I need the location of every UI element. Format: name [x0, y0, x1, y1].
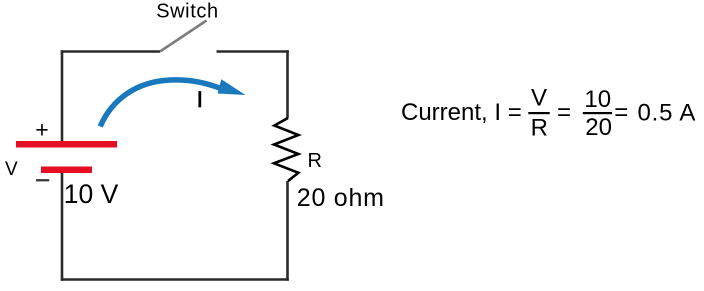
svg-text:=: = [557, 99, 571, 126]
svg-text:10: 10 [584, 86, 611, 113]
resistor R1 zigzag [274, 118, 298, 181]
svg-text:R: R [308, 150, 322, 172]
svg-text:Current, I =: Current, I = [401, 99, 522, 126]
svg-text:V: V [531, 85, 547, 112]
wire bottom horizontal [61, 278, 289, 281]
battery V1 positive plate [16, 141, 117, 148]
current arrow [100, 80, 221, 127]
svg-text:=: = [614, 99, 628, 126]
svg-text:20: 20 [585, 114, 612, 141]
svg-text:20 ohm: 20 ohm [297, 184, 385, 212]
wire left vertical lower (battery - terminal to bottom-left corner) [61, 173, 64, 281]
svg-text:Switch: Switch [156, 1, 219, 23]
switch blade [160, 21, 207, 52]
wire right vertical lower (resistor bottom to bottom-right corner) [286, 181, 289, 281]
svg-text:+: + [35, 117, 48, 143]
wire top horizontal left (corner to switch pole) [61, 50, 160, 53]
svg-text:10 V: 10 V [64, 179, 119, 209]
formula fraction 10/20 bar [583, 112, 612, 114]
wire left vertical upper (battery + terminal to top-left corner) [61, 50, 64, 141]
wire top horizontal right (switch throw to top-right corner) [217, 50, 289, 53]
svg-text:R: R [531, 115, 548, 142]
formula fraction V/R bar [528, 112, 549, 114]
battery minus label [36, 179, 49, 181]
svg-text:I: I [197, 87, 203, 112]
svg-text:V: V [5, 159, 18, 180]
battery V1 negative plate [41, 167, 92, 174]
svg-text:0.5 A: 0.5 A [638, 100, 697, 127]
wire right vertical upper (corner to resistor top) [286, 50, 289, 118]
